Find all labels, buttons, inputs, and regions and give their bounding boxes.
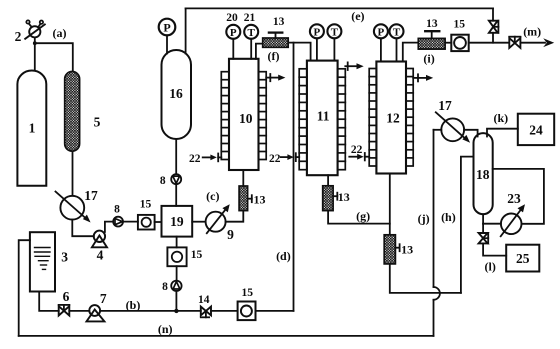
svg-text:(h): (h) xyxy=(441,210,456,224)
column12 sample port arrow (top right) xyxy=(413,74,433,81)
svg-text:15: 15 xyxy=(140,199,152,211)
product valve (m) xyxy=(509,37,520,48)
reactor column 10 xyxy=(221,59,266,170)
filter 15d (top right) xyxy=(451,35,468,51)
wire T gauge stem (col 12) xyxy=(396,38,398,61)
column11 feed arrow 22 xyxy=(281,153,299,161)
pressure gauge P (col 12) xyxy=(374,24,388,38)
wire cv8 to filter 15a xyxy=(123,221,138,223)
wire j-line vertical with hop xyxy=(434,130,440,336)
wire vessel18 top to box 24 xyxy=(487,129,518,137)
svg-text:(g): (g) xyxy=(356,209,370,223)
collector box 25 xyxy=(506,245,539,272)
svg-text:P: P xyxy=(230,27,237,39)
svg-text:(d): (d) xyxy=(276,249,291,263)
pressure gauge P (vessel 16) xyxy=(159,19,176,36)
wire HX23 loop to vessel 18 right side xyxy=(493,169,544,224)
wire HX17 right to vessel 18 top xyxy=(464,130,478,137)
svg-text:23: 23 xyxy=(507,191,521,206)
svg-text:16: 16 xyxy=(169,86,183,101)
wire column12 bottom to filter 13g2 xyxy=(389,174,391,235)
wire HX17 to pump 4 xyxy=(72,220,94,237)
svg-text:11: 11 xyxy=(317,109,330,124)
filter 15a (left of mixer 19) xyxy=(138,215,155,230)
filter 15c xyxy=(238,302,256,321)
wire gauge to vessel 16 xyxy=(166,35,168,53)
svg-text:9: 9 xyxy=(227,227,234,242)
regulator valve 2 xyxy=(25,20,45,39)
reactor column 11 xyxy=(299,61,345,176)
temperature gauge 21 (T) xyxy=(244,25,258,39)
temperature gauge T (col 11) xyxy=(327,24,341,38)
svg-text:24: 24 xyxy=(529,122,543,137)
svg-text:(f): (f) xyxy=(268,49,280,63)
wire n-line bottom xyxy=(19,335,434,337)
wire e-line drop to vessel 16 xyxy=(185,8,187,53)
pump 4 xyxy=(92,231,107,248)
wire vessel18 bottom xyxy=(482,214,484,224)
wire 15c to recycle line d xyxy=(256,310,294,312)
check valve 8c (bottom) xyxy=(171,281,181,291)
svg-text:13: 13 xyxy=(273,16,285,28)
drain valve below vessel 18 xyxy=(479,224,489,244)
svg-text:T: T xyxy=(331,27,339,39)
column10 sample port arrow (top right) xyxy=(266,74,285,81)
svg-text:T: T xyxy=(393,27,401,39)
analyzer box 24 xyxy=(518,114,554,145)
svg-text:(c): (c) xyxy=(206,189,219,203)
wire cv8b to mixer 19 xyxy=(175,184,177,206)
svg-text:19: 19 xyxy=(170,214,184,229)
wire 13g2 bottom to h-line xyxy=(390,264,461,293)
wire 15b to check valve 8c xyxy=(176,266,178,281)
reactor column 12 xyxy=(369,62,413,174)
svg-text:(m): (m) xyxy=(523,24,541,38)
column12 feed arrow 22 xyxy=(349,153,369,160)
wire 15a to mixer 19 xyxy=(155,221,162,223)
wire column11 bottom to filter 13g1 xyxy=(327,175,329,186)
wire valve6 to pump 7 xyxy=(69,310,89,312)
svg-text:1: 1 xyxy=(29,121,36,136)
svg-text:22: 22 xyxy=(351,144,363,156)
svg-text:2: 2 xyxy=(15,29,22,44)
wire tank3 bottom to valve 6 xyxy=(39,292,59,311)
check valve 8 (after pump 4) xyxy=(113,217,123,227)
wire tank3 left to n-line xyxy=(19,240,30,336)
svg-text:(j): (j) xyxy=(418,211,430,225)
wire P gauge stem (col 12) xyxy=(380,38,382,61)
mixer 19 xyxy=(162,206,193,237)
wire j-line into HX17 right xyxy=(434,129,442,131)
wire a horizontal to column 5 xyxy=(35,43,73,71)
svg-text:15: 15 xyxy=(241,287,253,299)
svg-text:(e): (e) xyxy=(351,9,364,23)
svg-text:3: 3 xyxy=(61,250,68,265)
wire 13f to column 11 top xyxy=(288,43,310,61)
wire valve2 to node a xyxy=(34,37,36,43)
filter 15b (below mixer 19) xyxy=(167,247,186,266)
wire drain valve to box 25 xyxy=(483,243,506,255)
wire T gauge stem (col 11) xyxy=(333,38,335,60)
wire P gauge 20 stem xyxy=(232,39,234,59)
wire e-line drop to vent valve xyxy=(492,8,494,20)
svg-text:(n): (n) xyxy=(158,322,173,336)
filter 13g2 (below column 12) xyxy=(384,235,399,264)
svg-text:17: 17 xyxy=(84,188,98,203)
wire h-line up to vessel 18 side xyxy=(461,157,474,293)
filter 13f xyxy=(263,33,289,48)
junction dot on line b xyxy=(174,309,178,313)
valve 6 xyxy=(59,305,70,316)
svg-text:13: 13 xyxy=(338,190,350,204)
wire cylinder 1 neck xyxy=(34,43,36,70)
wire vent valve to product line xyxy=(492,33,494,43)
heat exchanger 17 right xyxy=(436,112,470,143)
valve 14 xyxy=(201,307,211,318)
wire vessel18 to HX23 xyxy=(483,223,501,225)
heat exchanger 9 xyxy=(206,204,230,233)
column10 feed arrow 22 xyxy=(203,154,222,162)
check valve 8b (above mixer 19) xyxy=(171,174,181,184)
filter 13g1 (below column 11) xyxy=(323,186,338,211)
svg-text:(i): (i) xyxy=(423,51,434,65)
wire T gauge 21 stem xyxy=(250,39,252,59)
feed tank 3 xyxy=(30,232,55,291)
svg-text:(l): (l) xyxy=(485,259,496,273)
svg-text:8: 8 xyxy=(162,281,168,293)
product outlet arrow m xyxy=(520,38,554,47)
svg-text:12: 12 xyxy=(386,110,400,125)
svg-text:25: 25 xyxy=(516,251,530,266)
svg-text:7: 7 xyxy=(100,291,107,306)
svg-text:(b): (b) xyxy=(126,298,141,312)
svg-text:(a): (a) xyxy=(53,26,67,40)
wire HX9 to filter 13c xyxy=(226,211,244,222)
wire e-line top xyxy=(186,7,493,9)
separator vessel 18 xyxy=(474,133,493,214)
wire vessel16 to check valve 8b xyxy=(175,139,177,174)
wire column5 to HX17 xyxy=(72,151,74,196)
svg-text:22: 22 xyxy=(269,153,281,165)
svg-text:21: 21 xyxy=(244,12,256,24)
svg-text:22: 22 xyxy=(189,153,201,165)
heat exchanger 23 xyxy=(501,204,525,236)
pressure gauge 20 (P) xyxy=(226,25,240,39)
svg-text:10: 10 xyxy=(239,111,253,126)
wire 15d to product valve xyxy=(469,42,509,44)
wire cv8c to feed junction xyxy=(175,291,177,311)
wire P gauge stem (col 11) xyxy=(316,38,318,60)
wire column10 overhead to filter 13f xyxy=(256,44,263,59)
wire 13c to column 10 bottom xyxy=(242,170,244,186)
gas cylinder 1 xyxy=(17,71,46,186)
svg-text:6: 6 xyxy=(63,289,70,304)
filter 13c xyxy=(239,186,252,211)
svg-text:(k): (k) xyxy=(493,111,508,125)
svg-text:T: T xyxy=(248,27,256,39)
temperature gauge T (col 12) xyxy=(390,24,404,38)
column11 sample port arrow (top right) xyxy=(345,62,363,70)
filter 13i (after column 12) xyxy=(418,31,445,49)
wire valve14 to filter 15c xyxy=(211,310,238,312)
svg-text:13: 13 xyxy=(254,193,266,207)
wire 13g1 to node g xyxy=(328,211,390,224)
pump 7 xyxy=(87,305,105,321)
svg-text:14: 14 xyxy=(198,294,210,306)
svg-text:15: 15 xyxy=(453,19,465,31)
svg-text:P: P xyxy=(163,21,170,35)
pressure gauge P (col 11) xyxy=(310,24,324,38)
svg-text:5: 5 xyxy=(94,115,101,130)
wire pump4 to check valve 8 xyxy=(105,222,113,232)
buffer vessel 16 xyxy=(162,50,192,139)
wire mixer19 down to 15b xyxy=(176,237,178,248)
svg-text:15: 15 xyxy=(191,249,203,261)
heat exchanger 17 left xyxy=(56,192,91,223)
node a junction dot xyxy=(33,41,37,45)
wire recycle line d xyxy=(293,43,295,311)
wire mixer 19 to HX 9 xyxy=(192,221,205,223)
svg-text:4: 4 xyxy=(97,247,104,262)
wire column12 overhead to filter 13i xyxy=(403,43,419,62)
vent valve (top right, vertical) xyxy=(489,21,499,33)
svg-text:8: 8 xyxy=(160,175,166,187)
svg-text:20: 20 xyxy=(226,12,238,24)
svg-text:17: 17 xyxy=(438,98,452,113)
svg-text:8: 8 xyxy=(114,203,120,215)
svg-text:P: P xyxy=(314,27,321,39)
svg-text:13: 13 xyxy=(426,18,438,30)
svg-text:13: 13 xyxy=(401,243,413,257)
wire 13i to filter 15d xyxy=(445,42,451,44)
drying column 5 xyxy=(65,72,80,152)
svg-text:P: P xyxy=(378,27,385,39)
wire b-line pump7 to valve 14 xyxy=(100,310,201,312)
svg-text:18: 18 xyxy=(476,167,490,182)
